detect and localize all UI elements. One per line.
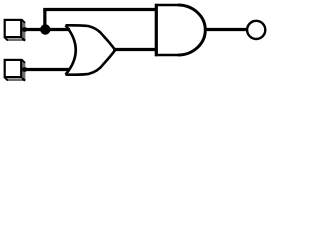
SW1 shadow top-right bevel <box>22 20 25 23</box>
input pin SW1 body <box>5 20 22 37</box>
wire AND output to LED <box>204 28 247 31</box>
junction dot <box>40 24 50 34</box>
U2 top edge <box>155 4 178 6</box>
or-gate U1 <box>66 25 116 74</box>
node A nub at SW1 output <box>22 27 27 32</box>
U2 bottom edge <box>155 54 178 56</box>
wire junction up from node <box>43 10 46 30</box>
U1 concave input edge <box>66 25 76 74</box>
U2 back edge <box>155 4 158 56</box>
and-gate U2 <box>155 4 205 56</box>
SW2 shadow top-right bevel <box>22 60 25 63</box>
SW2 shadow bottom-right bevel <box>22 78 25 81</box>
SW1 shadow bottom-left bevel <box>5 37 8 40</box>
SW2 shadow bottom-left bevel <box>5 77 8 80</box>
wire top run to AND input 1 <box>43 8 156 11</box>
U1 top curve <box>66 25 116 49</box>
wire OR output to AND input 2 <box>113 48 156 51</box>
SW1 shadow bottom-right bevel <box>22 38 25 41</box>
input pin SW2 shadow <box>5 60 26 81</box>
wire SW1 to OR input 1 <box>21 28 70 31</box>
node B nub at SW2 output <box>22 67 27 72</box>
U1 bottom curve <box>66 50 116 74</box>
input pin SW2 body <box>5 60 22 77</box>
output probe D1 circle <box>247 21 265 39</box>
input pin SW1 shadow <box>5 20 26 41</box>
wire SW2 to OR input 2 <box>21 68 70 71</box>
U2 output arc <box>178 5 205 55</box>
